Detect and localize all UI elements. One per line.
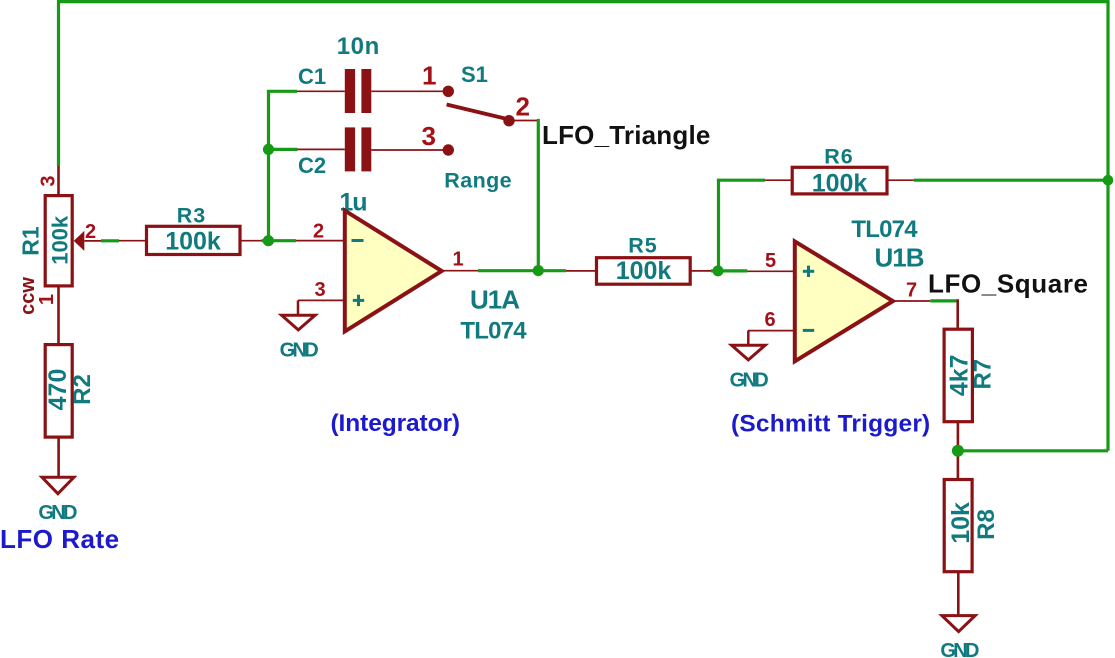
svg-text:GND: GND	[38, 502, 77, 524]
junction	[533, 265, 544, 276]
svg-text:C2: C2	[298, 153, 326, 178]
svg-text:10n: 10n	[337, 33, 380, 60]
svg-text:R2: R2	[69, 374, 96, 405]
svg-text:ccw: ccw	[17, 277, 39, 315]
svg-text:2: 2	[85, 221, 96, 243]
ground	[940, 616, 979, 658]
svg-text:1: 1	[453, 249, 464, 271]
svg-text:R5: R5	[628, 234, 657, 258]
svg-text:R1: R1	[17, 226, 43, 256]
svg-text:(Integrator): (Integrator)	[331, 410, 460, 437]
wire	[57, 0, 60, 166]
svg-text:LFO_Triangle: LFO_Triangle	[542, 120, 711, 150]
svg-text:470: 470	[44, 369, 72, 411]
svg-text:S1: S1	[461, 62, 488, 87]
capacitor C1	[297, 69, 444, 113]
junction	[263, 235, 274, 246]
resistor R5	[566, 258, 711, 285]
svg-text:GND: GND	[940, 640, 979, 658]
svg-text:C1: C1	[298, 64, 326, 89]
svg-text:3: 3	[38, 175, 60, 186]
wire	[267, 148, 298, 151]
svg-text:2: 2	[516, 92, 530, 122]
svg-text:5: 5	[765, 250, 776, 272]
svg-text:100k: 100k	[616, 257, 672, 285]
svg-text:100k: 100k	[47, 215, 72, 265]
wire	[101, 239, 119, 242]
svg-text:R6: R6	[824, 145, 853, 169]
svg-text:6: 6	[765, 309, 776, 331]
svg-text:3: 3	[315, 279, 326, 301]
resistor R8	[944, 480, 972, 616]
svg-text:U1A: U1A	[470, 285, 520, 315]
wire	[57, 0, 1110, 3]
wire	[267, 91, 270, 240]
wire	[930, 299, 957, 302]
svg-text:100k: 100k	[165, 228, 221, 256]
svg-text:GND: GND	[730, 370, 769, 392]
ground	[38, 477, 77, 524]
wire	[717, 180, 720, 271]
junction	[1103, 175, 1114, 186]
svg-text:LFO Rate: LFO Rate	[0, 524, 120, 554]
wire	[537, 119, 540, 271]
switch S1	[443, 86, 539, 156]
svg-text:100k: 100k	[812, 170, 868, 198]
op-amp U1A	[296, 211, 478, 332]
resistor R6	[765, 167, 914, 194]
resistor R2	[45, 345, 72, 478]
junction	[713, 265, 724, 276]
wire	[711, 269, 747, 272]
resistor R3	[119, 226, 262, 254]
junction	[263, 144, 274, 155]
svg-text:TL074: TL074	[460, 318, 527, 345]
svg-text:R8: R8	[973, 509, 1000, 540]
svg-text:GND: GND	[280, 340, 319, 362]
wire	[267, 90, 297, 93]
svg-text:3: 3	[422, 121, 436, 151]
svg-text:LFO_Square: LFO_Square	[928, 269, 1089, 299]
wire	[717, 179, 765, 182]
capacitor C2	[298, 127, 445, 171]
svg-text:(Schmitt Trigger): (Schmitt Trigger)	[731, 411, 930, 438]
svg-text:1: 1	[36, 294, 58, 305]
ground	[730, 331, 769, 392]
svg-text:R7: R7	[969, 359, 996, 390]
wire	[478, 269, 566, 272]
wire	[958, 449, 1108, 452]
svg-text:1: 1	[422, 61, 436, 91]
ground	[280, 300, 319, 361]
potentiometer R1	[45, 166, 101, 345]
svg-text:Range: Range	[444, 169, 512, 193]
wire	[1106, 2, 1109, 451]
svg-text:2: 2	[313, 221, 324, 243]
wire	[914, 179, 1108, 182]
svg-text:U1B: U1B	[875, 243, 924, 273]
wire	[262, 239, 297, 242]
svg-text:10k: 10k	[947, 502, 975, 544]
svg-text:7: 7	[906, 280, 917, 302]
op-amp U1B	[747, 241, 930, 361]
junction	[952, 445, 964, 457]
svg-text:R3: R3	[177, 204, 206, 228]
svg-text:TL074: TL074	[851, 216, 918, 243]
resistor R7	[944, 299, 972, 479]
